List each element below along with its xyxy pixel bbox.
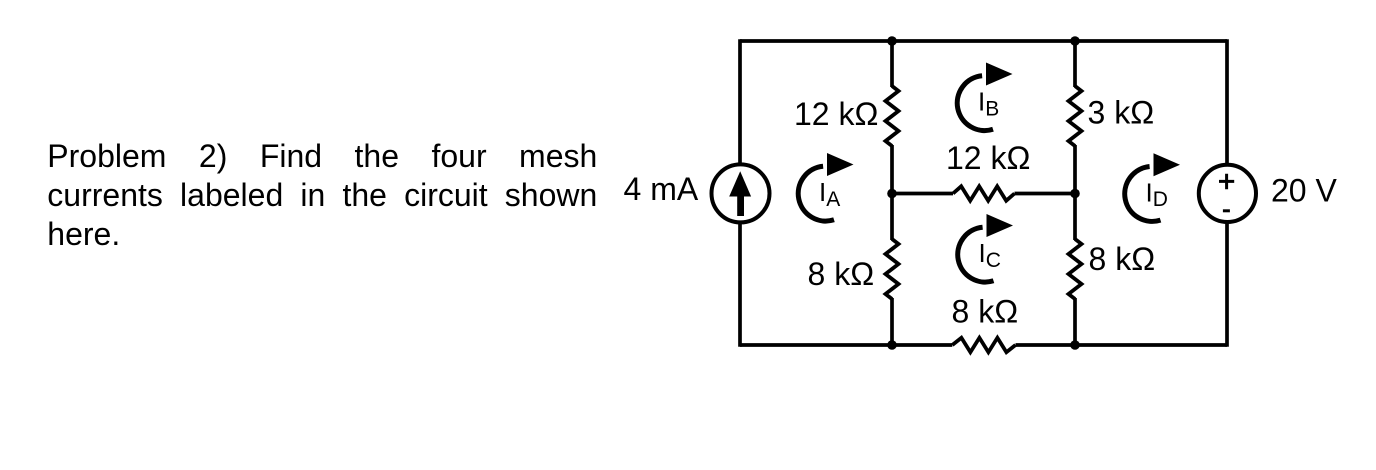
svg-text:12 kΩ: 12 kΩ — [946, 140, 1030, 176]
svg-text:3 kΩ: 3 kΩ — [1088, 95, 1155, 131]
wire middle-left branch: node to 8k — [890, 193, 894, 240]
svg-text:8 kΩ: 8 kΩ — [1089, 241, 1156, 277]
wire middle horizontal left lead — [892, 192, 953, 196]
resistor 8 kOhm horizontal (bottom wire) — [952, 338, 1015, 352]
wire middle horizontal right lead — [1015, 192, 1076, 196]
voltage source 20 V — [1199, 165, 1338, 222]
wire left branch lower — [738, 223, 742, 347]
wire middle-left branch: 8k to bottom — [890, 298, 894, 345]
wire middle-right branch: between 3k and node — [1073, 145, 1077, 194]
junction node middle-left — [887, 189, 897, 199]
junction node middle-right — [1070, 189, 1080, 199]
wire middle-left branch: between 12k and node — [890, 145, 894, 194]
problem statement text — [47, 137, 597, 255]
junction node bottom-left — [887, 340, 897, 350]
wire middle-right branch: top lead — [1073, 41, 1077, 87]
wire right branch upper — [1225, 39, 1229, 164]
svg-text:IB: IB — [978, 87, 999, 121]
wire bottom horizontal left segment — [740, 343, 952, 347]
svg-text:IA: IA — [819, 177, 840, 211]
wire middle-right branch: 8k to bottom — [1073, 298, 1077, 345]
mesh current IC arrow — [958, 214, 1013, 282]
svg-text:ID: ID — [1146, 177, 1168, 211]
svg-text:8 kΩ: 8 kΩ — [808, 256, 875, 292]
resistor 8 kOhm vertical (bottom-left branch) — [886, 239, 899, 299]
resistor 12 kOhm horizontal (middle wire) — [953, 186, 1015, 200]
resistor 8 kOhm vertical (bottom-right branch) — [1069, 239, 1082, 299]
wire top horizontal — [740, 39, 1227, 43]
svg-text:4 mA: 4 mA — [624, 171, 699, 207]
svg-text:20 V: 20 V — [1271, 173, 1337, 209]
svg-text:IC: IC — [979, 238, 1001, 272]
mesh current IB arrow — [957, 63, 1012, 131]
junction node top-right — [1070, 36, 1080, 46]
mesh current ID arrow — [1125, 153, 1180, 221]
mesh current IA arrow — [798, 153, 853, 221]
svg-text:12 kΩ: 12 kΩ — [794, 96, 878, 132]
junction node top-left — [887, 36, 897, 46]
wire bottom horizontal right segment — [1016, 343, 1228, 347]
current source 4 mA — [624, 164, 770, 222]
wire left branch upper — [738, 39, 742, 164]
wire middle-left branch: top lead — [890, 41, 894, 87]
junction node bottom-right — [1070, 340, 1080, 350]
wire middle-right branch: node to 8k — [1073, 193, 1077, 240]
wire right branch lower — [1225, 223, 1229, 347]
svg-text:8 kΩ: 8 kΩ — [952, 294, 1019, 330]
resistor 3 kOhm vertical (top-right branch) — [1069, 86, 1082, 146]
resistor 12 kOhm vertical (top-left branch) — [886, 86, 899, 146]
